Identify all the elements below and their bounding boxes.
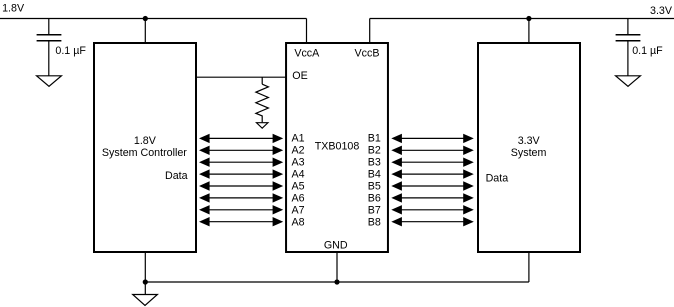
svg-text:Data: Data bbox=[486, 173, 509, 185]
bidirectional data line B3 (U1 to system) bbox=[391, 158, 474, 167]
svg-text:VccB: VccB bbox=[355, 47, 380, 59]
label System Controller bbox=[102, 147, 187, 159]
svg-text:A2: A2 bbox=[292, 144, 305, 156]
wire VccA riser bbox=[306, 19, 308, 44]
wire OE net bbox=[196, 76, 286, 78]
label System bbox=[511, 147, 547, 159]
svg-text:3.3V: 3.3V bbox=[518, 135, 541, 147]
ground symbol right capacitor bbox=[616, 76, 641, 87]
pin label GND bbox=[324, 240, 348, 252]
svg-text:B4: B4 bbox=[368, 168, 381, 180]
svg-text:B7: B7 bbox=[368, 204, 381, 216]
wire VccB riser bbox=[369, 19, 371, 44]
wire system to ground bus bbox=[528, 253, 530, 282]
IC U1 TXB0108 body bbox=[286, 43, 388, 252]
ground symbol main bbox=[133, 295, 158, 306]
svg-text:B2: B2 bbox=[368, 144, 381, 156]
wire ground bus bbox=[145, 281, 529, 283]
wire 1.8V rail to capacitor C1 bbox=[48, 19, 50, 35]
svg-text:OE: OE bbox=[292, 70, 307, 82]
ground arrow below resistor R1 bbox=[256, 123, 268, 129]
pin labels B1-B8 bbox=[368, 132, 381, 228]
capacitor C1 plates bbox=[37, 35, 62, 41]
svg-text:VccA: VccA bbox=[294, 47, 320, 59]
bidirectional data line A5 (controller to U1) bbox=[199, 181, 283, 190]
svg-text:System: System bbox=[511, 147, 547, 159]
junction dot ground bus at GND pin bbox=[334, 279, 339, 284]
wire 3.3V rail bbox=[370, 18, 674, 20]
bidirectional data line B4 (U1 to system) bbox=[391, 169, 474, 178]
svg-text:B1: B1 bbox=[368, 132, 381, 144]
value label 0.1 uF (C1) bbox=[55, 45, 86, 57]
svg-text:B8: B8 bbox=[368, 216, 381, 228]
svg-text:A3: A3 bbox=[292, 156, 305, 168]
pin labels A1-A8 bbox=[292, 132, 305, 228]
svg-text:GND: GND bbox=[324, 240, 348, 252]
svg-text:A5: A5 bbox=[292, 180, 305, 192]
bidirectional data line B1 (U1 to system) bbox=[391, 134, 474, 143]
label 3.3V (system) bbox=[518, 135, 541, 147]
pin label OE bbox=[292, 70, 307, 82]
wire OE to resistor R1 bbox=[261, 77, 263, 84]
wire 3.3V rail to system Vcc bbox=[528, 19, 530, 44]
resistor R1 (pull-down on OE) bbox=[256, 84, 269, 122]
part label TXB0108 bbox=[315, 140, 360, 152]
junction dot ground bus left bbox=[143, 279, 148, 284]
bidirectional data line A4 (controller to U1) bbox=[199, 169, 283, 178]
svg-text:A4: A4 bbox=[292, 168, 305, 180]
bidirectional data line B5 (U1 to system) bbox=[391, 181, 474, 190]
bidirectional data line A3 (controller to U1) bbox=[199, 158, 283, 167]
svg-text:B5: B5 bbox=[368, 180, 381, 192]
bidirectional data line A2 (controller to U1) bbox=[199, 146, 283, 155]
wire ground bus to ground symbol bbox=[144, 282, 146, 294]
pin label VccB bbox=[355, 47, 380, 59]
svg-text:TXB0108: TXB0108 bbox=[315, 140, 360, 152]
svg-text:A7: A7 bbox=[292, 204, 305, 216]
bidirectional data line A8 (controller to U1) bbox=[199, 217, 283, 226]
wire capacitor C2 to ground bbox=[627, 41, 629, 75]
svg-text:1.8V: 1.8V bbox=[134, 135, 157, 147]
ground symbol left capacitor bbox=[37, 76, 62, 87]
svg-text:B3: B3 bbox=[368, 156, 381, 168]
svg-text:B6: B6 bbox=[368, 192, 381, 204]
svg-text:3.3V: 3.3V bbox=[650, 5, 673, 17]
bidirectional data line B7 (U1 to system) bbox=[391, 205, 474, 214]
label 1.8V (controller) bbox=[134, 135, 157, 147]
wire controller to ground bus bbox=[144, 253, 146, 282]
junction dot 1.8V rail to controller bbox=[143, 16, 148, 21]
block 1.8V System Controller bbox=[94, 43, 196, 252]
svg-text:1.8V: 1.8V bbox=[2, 2, 25, 14]
bidirectional data line A7 (controller to U1) bbox=[199, 205, 283, 214]
svg-text:0.1 µF: 0.1 µF bbox=[632, 45, 663, 57]
net label 1.8V bbox=[2, 2, 25, 14]
svg-text:A6: A6 bbox=[292, 192, 305, 204]
label Data (controller) bbox=[165, 170, 188, 182]
pin label VccA bbox=[294, 47, 320, 59]
svg-text:Data: Data bbox=[165, 170, 188, 182]
bidirectional data line A6 (controller to U1) bbox=[199, 193, 283, 202]
label Data (system) bbox=[486, 173, 509, 185]
bidirectional data line B8 (U1 to system) bbox=[391, 217, 474, 226]
bidirectional data line B2 (U1 to system) bbox=[391, 146, 474, 155]
svg-text:A8: A8 bbox=[292, 216, 305, 228]
junction dot 3.3V rail to system bbox=[526, 16, 531, 21]
wire 3.3V rail to capacitor C2 bbox=[627, 19, 629, 35]
wire capacitor C1 to ground bbox=[48, 41, 50, 75]
svg-text:0.1 µF: 0.1 µF bbox=[55, 45, 86, 57]
svg-text:System Controller: System Controller bbox=[102, 147, 187, 159]
net label 3.3V bbox=[650, 5, 673, 17]
capacitor C2 plates bbox=[616, 35, 641, 41]
wire 1.8V rail bbox=[0, 18, 307, 20]
bidirectional data line B6 (U1 to system) bbox=[391, 193, 474, 202]
svg-text:A1: A1 bbox=[292, 132, 305, 144]
block 3.3V System bbox=[478, 43, 580, 252]
bidirectional data line A1 (controller to U1) bbox=[199, 134, 283, 143]
value label 0.1 uF (C2) bbox=[632, 45, 663, 57]
wire 1.8V rail to controller Vcc bbox=[144, 19, 146, 44]
wire GND pin of U1 to ground bus bbox=[336, 253, 338, 282]
